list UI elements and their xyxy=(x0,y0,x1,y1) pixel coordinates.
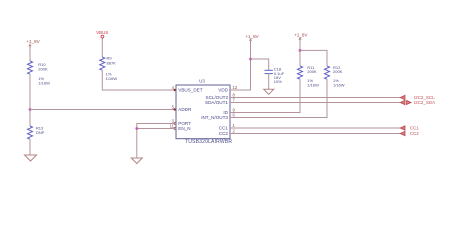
wire SCL/OUT2 pin 8 to I2C2_SCL xyxy=(230,97,400,99)
power flag +1_8V (above C18/VDD) xyxy=(245,34,259,44)
ground (below EN_N) xyxy=(131,158,142,164)
resistor R13 xyxy=(28,126,33,139)
resistor R11 xyxy=(298,66,303,79)
svg-text:INT_N/OUT3: INT_N/OUT3 xyxy=(201,115,228,120)
pin numbers left xyxy=(170,85,175,129)
capacitor C18 xyxy=(265,70,273,73)
node junction PORT/EN_N xyxy=(135,127,138,130)
svg-text:+1_8V: +1_8V xyxy=(245,34,259,39)
node junction rail/R11 xyxy=(299,49,302,52)
pin connection dot pin 11 xyxy=(174,127,176,129)
svg-text:SDA/OUT1: SDA/OUT1 xyxy=(205,100,228,105)
svg-text:200K: 200K xyxy=(307,69,317,74)
svg-text:200K: 200K xyxy=(333,69,343,74)
svg-text:DNP: DNP xyxy=(36,130,45,135)
svg-text:2: 2 xyxy=(233,129,236,134)
svg-text:6: 6 xyxy=(233,113,236,118)
wire ID pin 9 to R11 bottom xyxy=(230,79,300,112)
net flag I2C2_SCL xyxy=(400,95,405,99)
wire +1_8V rail to R11 and R12 tops xyxy=(299,44,301,67)
svg-text:7: 7 xyxy=(233,98,236,103)
power flag +1_8V (left, net +1_8V) xyxy=(26,39,40,49)
R11 value labels xyxy=(307,65,319,88)
svg-text:1/16W: 1/16W xyxy=(106,76,118,81)
svg-text:1: 1 xyxy=(233,123,236,128)
svg-text:200K: 200K xyxy=(38,67,48,72)
svg-text:VBUS_DET: VBUS_DET xyxy=(178,88,202,93)
R12 value labels xyxy=(333,65,345,88)
wire R13 bottom to ground xyxy=(29,139,31,155)
pin names right xyxy=(201,88,228,136)
power flag VBUS xyxy=(96,30,108,38)
svg-text:887K: 887K xyxy=(107,61,117,66)
pin connection dot pin 3 xyxy=(174,122,176,124)
pin connection dot pin 4 xyxy=(174,89,176,91)
net flag CC1 xyxy=(400,126,405,130)
wire PORT pin 3 to ground xyxy=(137,124,176,159)
svg-text:I2C2_SDA: I2C2_SDA xyxy=(414,100,435,105)
resistor R10 xyxy=(28,61,33,74)
wire ADDR net to pin 5 xyxy=(30,109,176,111)
svg-text:EN_N: EN_N xyxy=(178,126,190,131)
wire C18 bottom to ground xyxy=(268,74,270,90)
svg-text:U3: U3 xyxy=(199,79,205,84)
wire CC2 pin 2 to CC2 flag xyxy=(230,133,400,135)
wire VDD pin 12 to +1_8V xyxy=(230,43,251,90)
svg-text:1/16W: 1/16W xyxy=(38,81,50,86)
wire SDA/OUT1 pin 7 to I2C2_SDA xyxy=(230,102,400,104)
wire R9 bottom to VBUS_DET pin 4 xyxy=(102,70,176,90)
svg-text:CC1: CC1 xyxy=(410,126,419,131)
svg-text:CC2: CC2 xyxy=(219,131,229,136)
svg-text:ADDR: ADDR xyxy=(178,107,192,112)
svg-text:VBUS: VBUS xyxy=(96,30,108,35)
node junction R10/R13/ADDR xyxy=(29,108,32,111)
power flag +1_8V (above R11/R12) xyxy=(294,32,308,43)
resistor R12 xyxy=(325,66,330,79)
svg-text:TUSB320LAIRWBR: TUSB320LAIRWBR xyxy=(185,139,232,145)
pin numbers right xyxy=(233,85,238,134)
node junction VDD/C18 xyxy=(249,58,252,61)
resistor R9 xyxy=(100,57,105,70)
svg-text:CC1: CC1 xyxy=(219,126,229,131)
svg-text:VDD: VDD xyxy=(218,88,228,93)
wire CC1 pin 1 to CC1 flag xyxy=(230,127,400,129)
svg-text:+1_8V: +1_8V xyxy=(26,39,40,44)
R9 value labels xyxy=(106,56,118,81)
net flag I2C2_SDA xyxy=(400,100,411,104)
net flag CC2 xyxy=(400,131,405,135)
ground (left, below R13) xyxy=(25,155,37,161)
C18 value labels xyxy=(274,67,285,84)
wire rail to R12 xyxy=(300,50,327,66)
R10 value labels xyxy=(38,62,50,86)
wire R10 bottom to R13 top xyxy=(29,74,31,126)
svg-text:1/16W: 1/16W xyxy=(333,83,345,88)
pin names left xyxy=(178,88,202,131)
wire VBUS to R9 top xyxy=(101,38,103,57)
wire +1_8V to R10 top xyxy=(29,50,31,62)
R13 value labels xyxy=(36,125,45,135)
wire INT_N/OUT3 pin 6 to R12 bottom xyxy=(230,79,327,117)
svg-text:1/16W: 1/16W xyxy=(307,83,319,88)
IC U3 TUSB320LAIRWBR body xyxy=(176,85,230,139)
wire EN_N pin 11 xyxy=(137,128,176,130)
svg-text:+1_8V: +1_8V xyxy=(294,32,308,37)
svg-text:10%: 10% xyxy=(274,79,282,84)
wire VDD node to C18 top xyxy=(251,59,269,70)
svg-text:12: 12 xyxy=(233,85,238,90)
pin connection dot pin 5 xyxy=(174,108,176,110)
ground (below C18) xyxy=(264,89,274,94)
svg-text:CC2: CC2 xyxy=(410,131,419,136)
